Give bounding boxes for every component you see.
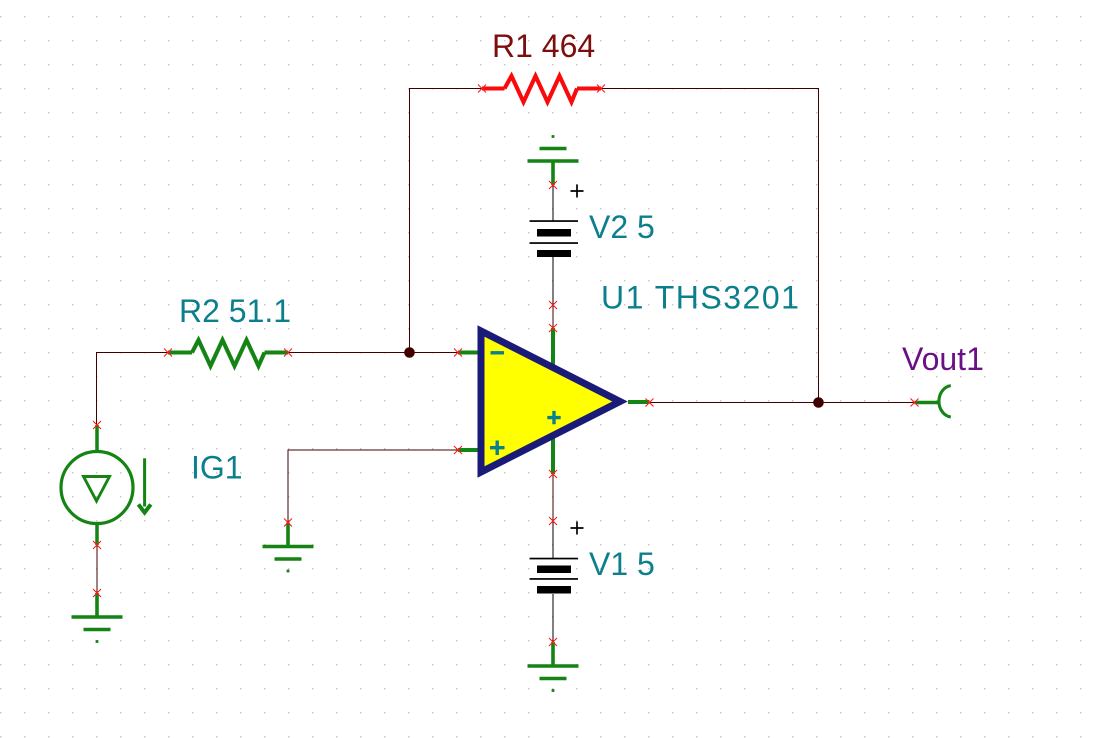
svg-text:R1 464: R1 464	[492, 28, 595, 64]
svg-text:R2 51.1: R2 51.1	[179, 293, 291, 329]
svg-text:V2 5: V2 5	[589, 209, 655, 245]
svg-text:U1 THS3201: U1 THS3201	[601, 280, 800, 316]
svg-text:IG1: IG1	[191, 450, 243, 486]
svg-text:V1 5: V1 5	[589, 546, 655, 582]
svg-text:Vout1: Vout1	[902, 341, 984, 377]
